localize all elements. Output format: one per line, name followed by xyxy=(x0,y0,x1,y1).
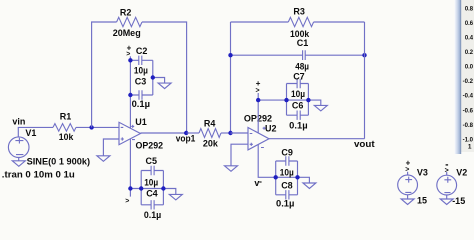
capacitor C3 xyxy=(130,90,152,99)
U1 power pin marks xyxy=(131,125,135,140)
plot y-axis labels xyxy=(463,5,474,150)
op-amp U2 triangle xyxy=(248,128,269,150)
svg-text:C6: C6 xyxy=(292,100,304,110)
wire V+ left rail down to U1 pin xyxy=(129,60,131,128)
svg-text:10µ: 10µ xyxy=(280,167,294,177)
capacitor C5 box right rail xyxy=(162,171,164,205)
junction C9/C8 left rail xyxy=(274,175,278,179)
junction C9/C8 right rail xyxy=(295,175,299,179)
resistor R1 xyxy=(53,124,76,132)
wire R2 left branch xyxy=(92,22,117,127)
ground U2 +input xyxy=(225,166,238,172)
svg-text:-1.0: -1.0 xyxy=(463,136,474,143)
net flag V- (stage 1) xyxy=(129,189,131,197)
ground stage1 V+ rail xyxy=(158,83,171,89)
svg-text:-0.4: -0.4 xyxy=(463,93,474,100)
svg-text:15: 15 xyxy=(417,196,427,206)
svg-text:U2: U2 xyxy=(265,124,277,134)
node vop1 junction xyxy=(184,131,188,135)
svg-text:20Meg: 20Meg xyxy=(113,28,141,38)
junction C7/C6 right rail xyxy=(306,98,310,102)
capacitor C2 xyxy=(130,56,152,65)
svg-text:0.1µ: 0.1µ xyxy=(132,99,150,109)
U2 input polarity marks xyxy=(250,134,253,146)
svg-text:-15: -15 xyxy=(452,196,465,206)
voltage source V2 xyxy=(437,175,457,195)
net flag V- (V2) xyxy=(446,164,449,166)
voltage source V3 xyxy=(398,175,418,195)
svg-text:R4: R4 xyxy=(204,118,216,128)
op-amp U1 triangle xyxy=(119,122,141,144)
junction V+ pin node stage2 xyxy=(256,98,260,102)
svg-text:C2: C2 xyxy=(136,46,148,56)
ground stage2 V- rail xyxy=(303,183,316,189)
svg-text:>: > xyxy=(126,51,130,58)
svg-text:0.1µ: 0.1µ xyxy=(276,199,294,209)
svg-text:1: 1 xyxy=(468,143,472,150)
wire right rail stage2 down to vout xyxy=(364,22,366,139)
resistor R4 xyxy=(199,129,221,138)
svg-text:-0.2: -0.2 xyxy=(463,78,474,85)
junction C5/C4 left rail xyxy=(139,186,143,190)
wire C2/C3 right rail xyxy=(152,60,154,95)
capacitor C4 xyxy=(141,200,163,209)
svg-text:0.1µ: 0.1µ xyxy=(144,210,161,220)
wire V+ mid rail stage2 xyxy=(258,100,321,105)
junction C1 right xyxy=(362,53,366,57)
svg-text:10µ: 10µ xyxy=(144,177,158,187)
wire R4 to U2 node xyxy=(221,132,231,134)
wire V2 top stub xyxy=(446,172,448,175)
voltage source V1 xyxy=(8,137,29,158)
capacitor C8 xyxy=(276,190,298,199)
svg-text:0.1µ: 0.1µ xyxy=(289,121,307,131)
svg-text:C4: C4 xyxy=(146,189,158,199)
wire U2 V+ pin up xyxy=(257,100,259,133)
svg-text:C7: C7 xyxy=(293,72,305,82)
wire U2 output to vout xyxy=(269,138,365,140)
U1 input polarity marks xyxy=(121,127,124,140)
resistor R3 xyxy=(288,17,313,26)
capacitor C9 box right rail xyxy=(297,161,299,195)
svg-text:-0.8: -0.8 xyxy=(463,122,474,129)
svg-text:C3: C3 xyxy=(135,76,147,86)
junction V- pin node xyxy=(128,186,132,190)
junction ground branch xyxy=(151,75,155,79)
svg-text:V3: V3 xyxy=(417,167,428,177)
svg-text:C5: C5 xyxy=(146,156,158,166)
svg-text:SINE(0 1 900k): SINE(0 1 900k) xyxy=(27,157,91,167)
svg-text:0.6: 0.6 xyxy=(465,20,474,27)
wire U1 V- pin down xyxy=(129,139,131,189)
capacitor C7 box left rail xyxy=(286,84,288,116)
ground stage2 V+ rail xyxy=(314,105,327,111)
ground under V2 xyxy=(440,199,453,205)
svg-text:48µ: 48µ xyxy=(295,61,309,71)
wire V2 bottom stub xyxy=(446,195,448,199)
junction C3 left xyxy=(128,93,132,97)
svg-text:.tran 0 10m 0 1u: .tran 0 10m 0 1u xyxy=(2,170,75,180)
wire V3 bottom stub xyxy=(407,195,409,199)
capacitor C7 xyxy=(287,79,309,88)
capacitor C1 xyxy=(231,50,365,60)
U2 power pin marks xyxy=(261,127,266,148)
svg-text:0.4: 0.4 xyxy=(465,35,474,42)
wire V- mid rail xyxy=(130,189,175,195)
junction C5/C4 right rail xyxy=(161,186,165,190)
ground U1 +input xyxy=(97,156,110,162)
node junction R1/R2 xyxy=(89,125,93,129)
svg-text:10µ: 10µ xyxy=(291,89,305,99)
wire R1 to U1 inverting input xyxy=(76,126,119,128)
wire node to U2 inverting input xyxy=(231,132,249,134)
svg-text:V2: V2 xyxy=(456,168,467,178)
svg-text:20k: 20k xyxy=(203,139,219,149)
junction C1 left xyxy=(228,53,232,57)
svg-text:U1: U1 xyxy=(135,117,147,127)
wire top rail stage2 xyxy=(231,21,289,23)
svg-text:0.8: 0.8 xyxy=(465,5,474,12)
svg-text:V1: V1 xyxy=(25,128,36,138)
wire U2 V- pin down xyxy=(258,145,276,178)
svg-text:R3: R3 xyxy=(293,6,305,16)
svg-text:R1: R1 xyxy=(60,112,72,122)
ground stage1 V- rail xyxy=(169,194,182,200)
svg-text:10k: 10k xyxy=(59,132,74,142)
wire U2 noninverting input to ground xyxy=(231,144,248,166)
ground under V1 xyxy=(12,158,25,167)
wire U1 noninverting input to ground xyxy=(103,139,119,156)
resistor R2 xyxy=(117,17,142,26)
capacitor C5 box left rail xyxy=(140,171,142,205)
ground under V3 xyxy=(401,199,414,205)
capacitor C5 xyxy=(141,166,163,175)
svg-text:0.0: 0.0 xyxy=(465,64,474,71)
svg-text:vop1: vop1 xyxy=(176,134,196,144)
svg-text:-0.6: -0.6 xyxy=(463,107,474,114)
svg-text:>: > xyxy=(256,87,260,94)
wire V+ flag stub stage2 xyxy=(257,93,259,100)
svg-text:10µ: 10µ xyxy=(134,65,148,75)
wire V3 top stub xyxy=(407,172,409,175)
svg-text:v: v xyxy=(254,178,259,188)
svg-text:vin: vin xyxy=(12,117,25,127)
capacitor C9 xyxy=(276,156,298,165)
wire vop1 to R4 xyxy=(187,132,199,134)
junction C2 left xyxy=(128,58,132,62)
svg-text:>: > xyxy=(125,198,129,205)
wire R2 right branch down to vop1 xyxy=(142,22,187,133)
wire left rail stage2 xyxy=(230,22,232,133)
capacitor C9 box left rail xyxy=(275,161,277,195)
wire U1 output to vop1 node xyxy=(141,132,187,134)
waveform plot pane background xyxy=(461,0,474,152)
svg-text:R2: R2 xyxy=(120,7,132,17)
wire vin node: corner to R1 xyxy=(18,127,53,136)
svg-text:OP292: OP292 xyxy=(136,141,164,151)
scrollbar splitter xyxy=(455,0,461,154)
svg-text:C1: C1 xyxy=(297,38,309,48)
capacitor C7 box right rail xyxy=(307,84,309,116)
svg-text:C8: C8 xyxy=(281,181,293,191)
wire rail to ground elbow xyxy=(153,78,165,84)
wire V- mid rail stage2 xyxy=(276,177,310,183)
junction R4/C1/U2 input node xyxy=(228,131,232,135)
svg-text:C9: C9 xyxy=(281,148,293,158)
svg-text:0.2: 0.2 xyxy=(465,49,474,56)
svg-text:vout: vout xyxy=(354,139,375,149)
capacitor C6 xyxy=(287,111,309,120)
junction C7/C6 left rail xyxy=(284,98,288,102)
wire V+ flag stub xyxy=(129,56,131,60)
